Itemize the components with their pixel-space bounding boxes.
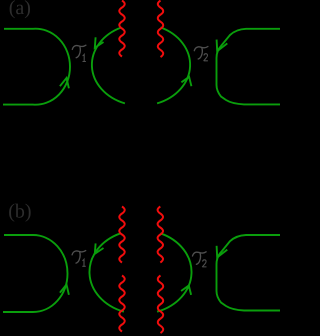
arrowhead on middle right arc (b)	[181, 286, 191, 295]
wire right lead (a)	[217, 29, 281, 105]
photon wavy line left (a)	[119, 1, 124, 57]
wire middle contour left arc (a)	[92, 27, 125, 103]
svg-text:(a): (a)	[9, 0, 31, 19]
arrowhead on right lead (a)	[217, 40, 228, 52]
wire right lead (b)	[217, 235, 281, 311]
photon wavy line top-right (b)	[158, 207, 163, 263]
arrowhead on left lead (b)	[60, 285, 69, 295]
arrowhead on right lead (b)	[217, 246, 228, 258]
label T1 (b)	[72, 251, 86, 264]
photon wavy line bottom-left (b)	[119, 276, 124, 332]
label T2 (a)	[194, 47, 208, 60]
arrowhead on middle left arc (a)	[95, 37, 104, 48]
wire middle contour right arc (b)	[157, 233, 191, 311]
wire left lead (b)	[3, 235, 68, 312]
photon wavy line top-left (b)	[119, 207, 124, 263]
label T1 (a)	[72, 45, 86, 58]
photon wavy line bottom-right (b)	[158, 276, 163, 334]
wire middle contour right arc (a)	[157, 27, 190, 103]
arrowhead on left lead (a)	[60, 78, 69, 88]
arrowhead on middle left arc (b)	[95, 243, 104, 253]
arrowhead on middle right arc (a)	[181, 77, 191, 86]
svg-text:(b): (b)	[8, 200, 31, 222]
wire middle contour left arc (b)	[89, 233, 123, 311]
label T2 (b)	[193, 252, 207, 265]
wire left lead (a)	[3, 29, 70, 105]
photon wavy line right (a)	[158, 1, 163, 57]
